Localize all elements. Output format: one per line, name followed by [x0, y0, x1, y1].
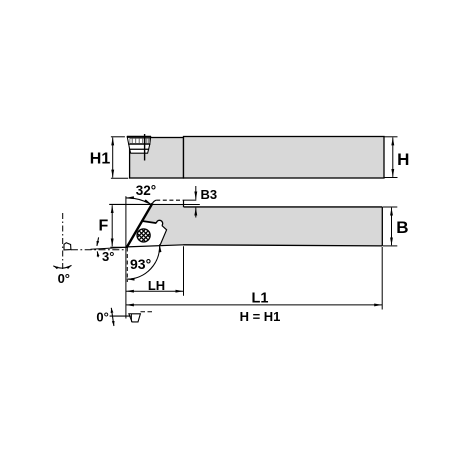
svg-text:B3: B3: [201, 187, 218, 202]
svg-text:F: F: [99, 217, 109, 234]
svg-text:L1: L1: [252, 291, 269, 307]
svg-text:3°: 3°: [102, 249, 114, 264]
svg-text:93°: 93°: [130, 256, 151, 272]
svg-text:H = H1: H = H1: [240, 309, 281, 324]
svg-text:0°: 0°: [58, 271, 70, 286]
svg-text:H: H: [397, 150, 409, 169]
svg-text:LH: LH: [148, 278, 165, 293]
svg-text:B: B: [396, 218, 408, 237]
svg-text:32°: 32°: [136, 183, 156, 198]
svg-text:0°: 0°: [96, 309, 108, 324]
svg-text:H1: H1: [90, 150, 111, 167]
